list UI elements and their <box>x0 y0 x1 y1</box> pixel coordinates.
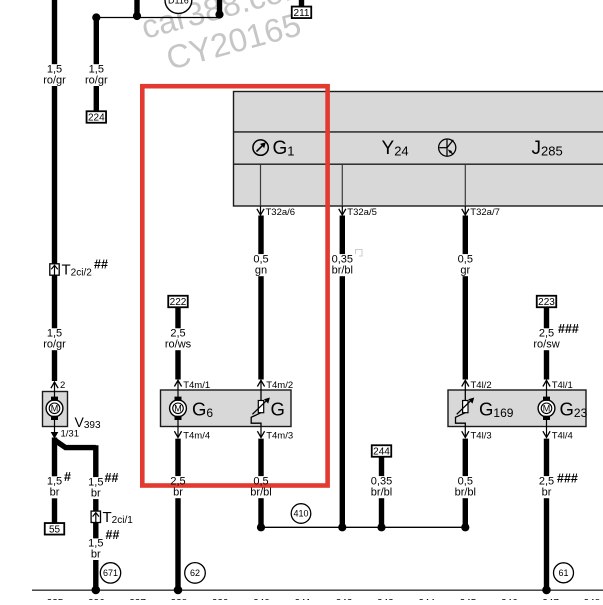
svg-text:ro/sw: ro/sw <box>533 339 559 351</box>
svg-text:671: 671 <box>103 568 118 578</box>
svg-text:223: 223 <box>538 297 555 308</box>
svg-text:#: # <box>64 470 71 484</box>
svg-text:br/bl: br/bl <box>332 265 353 277</box>
svg-text:T4l/3: T4l/3 <box>471 430 492 441</box>
svg-text:br: br <box>91 488 101 500</box>
svg-text:222: 222 <box>170 297 187 308</box>
svg-text:ro/ws: ro/ws <box>165 339 192 351</box>
svg-text:br: br <box>50 487 60 499</box>
svg-text:0,35: 0,35 <box>371 475 392 487</box>
svg-text:224: 224 <box>88 113 105 124</box>
svg-text:1,5: 1,5 <box>47 476 62 488</box>
svg-text:211: 211 <box>294 8 310 19</box>
svg-text:br: br <box>91 548 101 560</box>
svg-text:244: 244 <box>373 447 390 458</box>
svg-text:ro/gr: ro/gr <box>43 339 66 351</box>
svg-text:T32a/6: T32a/6 <box>266 207 296 218</box>
svg-text:###: ### <box>557 471 578 485</box>
svg-text:br/bl: br/bl <box>250 487 271 499</box>
svg-text:##: ## <box>94 258 108 272</box>
svg-text:0,35: 0,35 <box>332 253 353 265</box>
svg-text:410: 410 <box>293 509 308 519</box>
svg-text:M: M <box>174 404 182 414</box>
svg-text:gn: gn <box>255 265 267 277</box>
svg-text:G: G <box>271 399 285 420</box>
svg-text:0,5: 0,5 <box>253 253 268 265</box>
svg-text:T32a/7: T32a/7 <box>470 207 500 218</box>
svg-text:T4l/1: T4l/1 <box>552 380 573 391</box>
svg-text:br: br <box>173 487 183 499</box>
svg-text:T4m/2: T4m/2 <box>266 380 293 391</box>
svg-text:2,5: 2,5 <box>170 475 185 487</box>
svg-text:M: M <box>51 404 59 414</box>
svg-text:62: 62 <box>190 568 200 578</box>
svg-text:br/bl: br/bl <box>371 487 392 499</box>
svg-text:61: 61 <box>558 568 568 578</box>
svg-text:gr: gr <box>460 265 470 277</box>
svg-text:##: ## <box>105 471 119 485</box>
svg-text:##: ## <box>106 528 120 542</box>
svg-text:###: ### <box>558 322 579 336</box>
svg-text:2,5: 2,5 <box>539 475 554 487</box>
svg-text:T32a/5: T32a/5 <box>347 207 377 218</box>
svg-text:ro/gr: ro/gr <box>43 74 66 86</box>
svg-text:2: 2 <box>60 380 65 391</box>
svg-text:T4m/1: T4m/1 <box>183 380 210 391</box>
svg-text:1,5: 1,5 <box>88 476 103 488</box>
svg-text:0,5: 0,5 <box>458 253 473 265</box>
svg-text:ro/gr: ro/gr <box>85 74 108 86</box>
svg-text:br/bl: br/bl <box>455 487 476 499</box>
svg-text:T4m/4: T4m/4 <box>183 430 210 441</box>
svg-text:1/31: 1/31 <box>61 429 80 440</box>
svg-text:T4m/3: T4m/3 <box>266 430 293 441</box>
svg-text:0,5: 0,5 <box>458 475 473 487</box>
svg-text:0,5: 0,5 <box>253 475 268 487</box>
svg-text:T4l/2: T4l/2 <box>471 380 492 391</box>
svg-text:T4l/4: T4l/4 <box>552 430 573 441</box>
svg-text:D116: D116 <box>168 0 189 5</box>
svg-text:55: 55 <box>49 524 61 535</box>
svg-text:M: M <box>543 404 551 414</box>
svg-text:br: br <box>542 487 552 499</box>
